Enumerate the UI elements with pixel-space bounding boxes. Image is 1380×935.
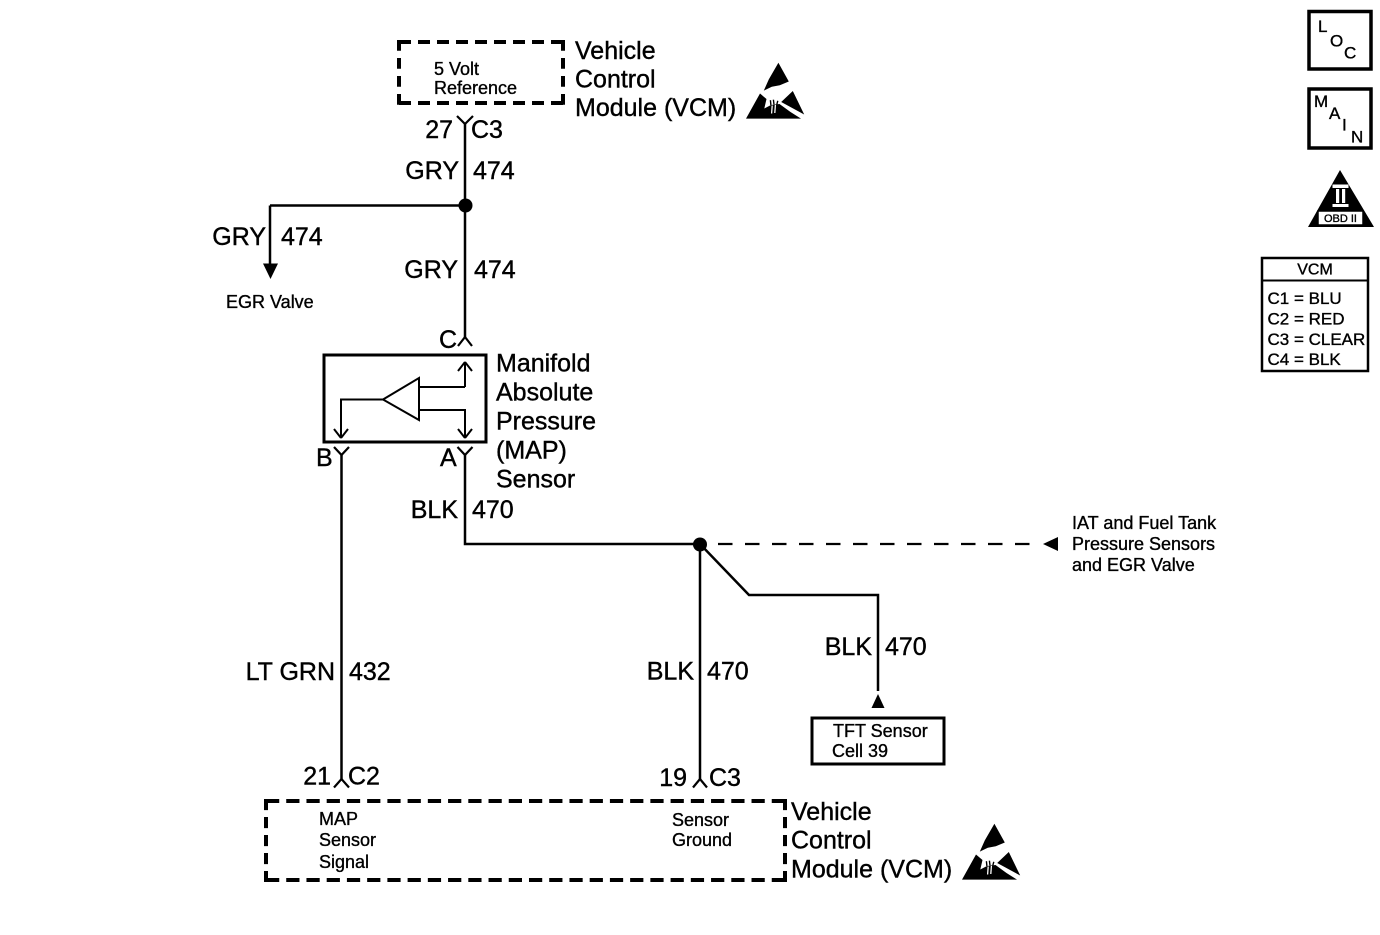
svg-text:L: L [1318,17,1327,36]
svg-text:N: N [1351,128,1363,147]
label GRY 474 lower [404,256,516,284]
label BLK 470 upper [411,496,514,524]
svg-text:470: 470 [472,496,514,524]
svg-text:21: 21 [303,763,331,791]
svg-text:B: B [316,444,333,472]
svg-text:GRY: GRY [404,256,458,284]
svg-text:C: C [439,326,457,354]
pin A connector [458,447,473,455]
svg-text:Control: Control [575,66,656,94]
pin C connector chevron [458,337,472,346]
label Vehicle Control Module (VCM) bottom [791,798,952,884]
svg-text:(MAP): (MAP) [496,437,567,465]
MAP sensor internal amplifier [334,362,472,438]
LOC legend box [1309,12,1371,70]
svg-text:Sensor: Sensor [672,810,729,830]
wire BLK 470 to pin 19 [699,544,702,779]
svg-text:C3: C3 [471,116,503,144]
arrow into TFT sensor [872,694,885,708]
label IAT and Fuel Tank Pressure Sensors and EGR Valve [1072,513,1217,575]
junction node splice [459,199,473,213]
label BLK 470 right [825,633,927,661]
svg-text:474: 474 [474,256,516,284]
svg-text:C: C [1344,44,1356,63]
svg-text:Vehicle: Vehicle [791,798,872,826]
svg-text:I: I [1342,116,1347,135]
dashed wire to IAT and EGR [718,537,1058,551]
svg-text:Sensor: Sensor [496,466,575,494]
pin 19 C3 connector [659,764,741,792]
svg-text:IAT and Fuel Tank: IAT and Fuel Tank [1072,513,1217,533]
OBD II symbol [1308,170,1374,227]
ESD sensitive device symbol bottom [962,824,1020,880]
svg-text:470: 470 [885,633,927,661]
svg-text:BLK: BLK [411,496,459,524]
svg-text:C3: C3 [709,764,741,792]
svg-text:Pressure: Pressure [496,408,596,436]
VCM 5 Volt Reference dashed box [399,40,563,105]
svg-text:Module (VCM): Module (VCM) [791,856,952,884]
MAP sensor box [324,355,486,442]
label GRY 474 left branch [212,223,323,251]
svg-text:Signal: Signal [319,852,369,872]
svg-text:Pressure Sensors: Pressure Sensors [1072,534,1215,554]
svg-text:EGR Valve: EGR Valve [226,292,314,312]
svg-text:M: M [1314,92,1328,111]
svg-text:A: A [440,444,457,472]
label Manifold Absolute Pressure (MAP) Sensor [496,350,596,494]
VCM connector legend box [1262,258,1368,371]
svg-text:TFT Sensor: TFT Sensor [833,721,928,741]
svg-text:OBD II: OBD II [1324,213,1357,225]
svg-text:VCM: VCM [1297,262,1333,279]
svg-text:LT GRN: LT GRN [246,658,335,686]
wire BLK 470 to TFT sensor [700,544,878,691]
pin B connector [334,447,349,455]
svg-text:BLK: BLK [825,633,873,661]
svg-text:27: 27 [425,116,453,144]
wire GRY 474 vertical from pin 27 to C pin [464,124,467,337]
svg-text:C3 = CLEAR: C3 = CLEAR [1268,330,1366,349]
svg-text:GRY: GRY [405,157,459,185]
svg-text:19: 19 [659,764,687,792]
pin 27 C3 connector [425,116,503,144]
svg-text:C2: C2 [348,763,380,791]
wire LT GRN 432 from pin B to pin 21 [340,455,343,779]
TFT Sensor Cell 39 box [812,718,944,764]
pin 21 C2 connector [303,763,380,791]
svg-text:and EGR Valve: and EGR Valve [1072,555,1195,575]
svg-text:C1 = BLU: C1 = BLU [1268,289,1342,308]
label LT GRN 432 [246,658,391,686]
svg-text:Manifold: Manifold [496,350,591,378]
svg-text:Absolute: Absolute [496,379,593,407]
svg-text:O: O [1330,32,1343,51]
svg-text:Vehicle: Vehicle [575,37,656,65]
svg-text:474: 474 [473,157,515,185]
VCM bottom dashed box [266,799,785,882]
svg-text:C2 = RED: C2 = RED [1268,309,1345,328]
svg-text:MAP: MAP [319,809,358,829]
label Vehicle Control Module (VCM) top [575,37,736,122]
svg-text:Cell 39: Cell 39 [832,741,888,761]
svg-text:Reference: Reference [434,78,517,98]
svg-text:C4 = BLK: C4 = BLK [1268,350,1342,369]
svg-text:432: 432 [349,658,391,686]
wire BLK 470 from pin A [465,455,700,544]
ESD sensitive device symbol top [746,63,804,119]
svg-text:Control: Control [791,827,872,855]
svg-text:GRY: GRY [212,223,266,251]
junction node splice lower [693,538,707,552]
label BLK 470 center [647,658,749,686]
svg-text:474: 474 [281,223,323,251]
svg-text:Sensor: Sensor [319,830,376,850]
svg-text:BLK: BLK [647,658,695,686]
label GRY 474 upper [405,157,515,185]
MAIN legend box [1309,89,1371,148]
svg-text:A: A [1329,104,1341,123]
svg-text:470: 470 [707,658,749,686]
svg-text:5 Volt: 5 Volt [434,59,479,79]
svg-text:Ground: Ground [672,830,732,850]
wire branch to EGR valve [263,206,465,280]
svg-text:Module (VCM): Module (VCM) [575,94,736,122]
